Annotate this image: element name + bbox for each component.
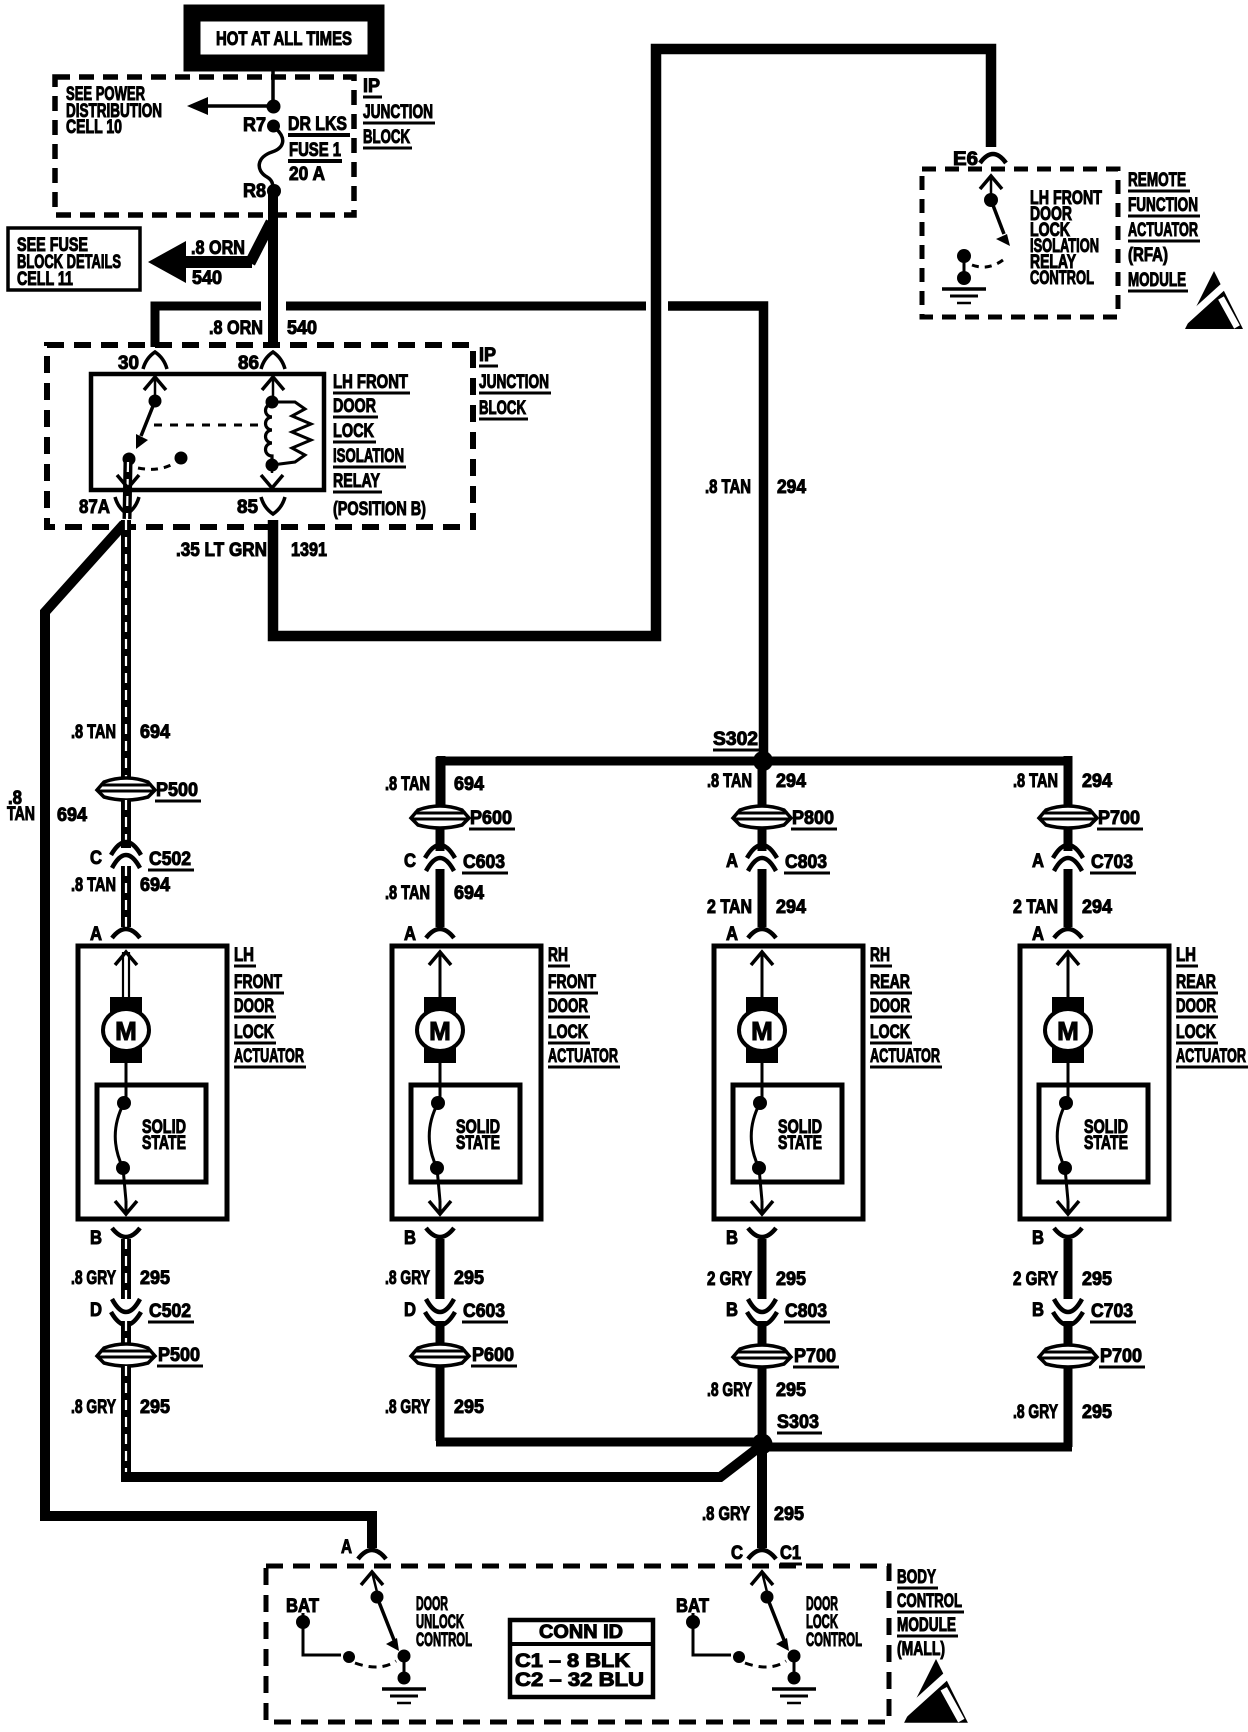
svg-text:B: B — [404, 1228, 416, 1249]
svg-text:295: 295 — [776, 1269, 806, 1290]
CONN ID table — [510, 1620, 653, 1697]
wire .8 GRY 295 LH front to S303 — [121, 1472, 722, 1482]
fuse DR LKS FUSE 1 20 A — [259, 126, 283, 190]
body control module dashed box — [266, 1566, 889, 1722]
svg-text:2 GRY: 2 GRY — [707, 1269, 752, 1290]
svg-text:S302: S302 — [713, 729, 758, 750]
svg-text:C603: C603 — [463, 852, 505, 873]
svg-text:C1: C1 — [780, 1543, 801, 1564]
connector C502 pin C — [111, 842, 141, 855]
wire (top) — [1064, 757, 1073, 806]
svg-text:M: M — [429, 1016, 451, 1046]
grommet P700 — [1039, 806, 1097, 828]
svg-text:P600: P600 — [470, 808, 512, 829]
svg-text:.8 GRY: .8 GRY — [702, 1504, 750, 1525]
wire (bottom) — [121, 1366, 131, 1472]
connector C603 pin D — [425, 1312, 455, 1325]
wire — [121, 1239, 131, 1299]
grommet P700 — [1039, 1345, 1097, 1367]
svg-text:694: 694 — [140, 722, 170, 743]
wire .8 GRY 295 S303 to BCM door lock control — [757, 1448, 767, 1548]
RH front door lock actuator box — [392, 946, 541, 1219]
grommet P600 — [411, 806, 469, 828]
svg-text:STATE: STATE — [1084, 1133, 1128, 1154]
svg-text:ACTUATOR: ACTUATOR — [870, 1046, 940, 1067]
svg-text:C803: C803 — [785, 1301, 827, 1322]
wire — [121, 1321, 131, 1344]
svg-text:85: 85 — [237, 497, 258, 518]
svg-text:A: A — [404, 924, 416, 945]
svg-text:C502: C502 — [149, 1301, 191, 1322]
wire from HOT AT ALL TIMES down — [271, 63, 275, 103]
svg-text:(RFA): (RFA) — [1128, 245, 1168, 266]
wire — [758, 828, 767, 851]
svg-text:.8 TAN: .8 TAN — [71, 722, 116, 743]
svg-text:20 A: 20 A — [289, 164, 325, 185]
motor M — [110, 997, 142, 1063]
svg-text:M: M — [751, 1016, 773, 1046]
svg-text:.8 GRY: .8 GRY — [385, 1397, 430, 1418]
LH front door lock actuator box — [78, 946, 227, 1219]
svg-text:.8 TAN: .8 TAN — [385, 883, 430, 904]
svg-text:BLOCK: BLOCK — [479, 398, 526, 419]
svg-text:REMOTE: REMOTE — [1128, 170, 1186, 191]
svg-text:A: A — [90, 924, 102, 945]
svg-text:M: M — [115, 1016, 137, 1046]
svg-text:A: A — [341, 1537, 352, 1558]
svg-text:294: 294 — [776, 771, 806, 792]
svg-text:2 GRY: 2 GRY — [1013, 1269, 1058, 1290]
motor M — [746, 997, 778, 1063]
wire — [436, 828, 445, 851]
wire — [439, 1063, 442, 1103]
svg-text:694: 694 — [454, 774, 484, 795]
svg-text:B: B — [90, 1228, 102, 1249]
wire — [758, 1321, 767, 1345]
wire — [758, 869, 767, 927]
grommet P800 — [733, 806, 791, 828]
svg-text:B: B — [726, 1300, 738, 1321]
svg-text:FRONT: FRONT — [548, 972, 596, 993]
svg-text:DOOR: DOOR — [870, 996, 910, 1017]
svg-text:LOCK: LOCK — [1176, 1022, 1216, 1043]
svg-text:LOCK: LOCK — [870, 1022, 910, 1043]
BCM switch: door unlock control — [361, 1572, 383, 1585]
svg-text:.35 LT GRN: .35 LT GRN — [176, 540, 267, 561]
svg-text:295: 295 — [140, 1268, 170, 1289]
wire — [759, 1168, 762, 1201]
svg-text:.8 TAN: .8 TAN — [1013, 771, 1058, 792]
arrow to power distribution — [206, 104, 273, 108]
ESD symbol (BCM) — [904, 1659, 968, 1723]
svg-text:.8 TAN: .8 TAN — [385, 774, 430, 795]
relay contact (position A, open) — [175, 452, 188, 465]
wire ORN 540 from R8 down to relay pin 86 — [268, 191, 278, 346]
svg-text:LOCK: LOCK — [548, 1022, 588, 1043]
svg-text:M: M — [1057, 1016, 1079, 1046]
svg-text:DR LKS: DR LKS — [288, 114, 347, 135]
svg-text:86: 86 — [238, 353, 259, 374]
svg-text:694: 694 — [454, 883, 484, 904]
svg-text:FUSE 1: FUSE 1 — [289, 140, 341, 161]
svg-text:B: B — [726, 1228, 738, 1249]
svg-text:(POSITION B): (POSITION B) — [333, 499, 426, 520]
wire (bottom) — [758, 1367, 767, 1436]
svg-text:REAR: REAR — [870, 972, 910, 993]
svg-text:.8 TAN: .8 TAN — [71, 875, 116, 896]
svg-text:A: A — [726, 924, 738, 945]
wire — [437, 1168, 440, 1201]
svg-text:JUNCTION: JUNCTION — [479, 372, 549, 393]
wire from relay pin 30 to S302 riser (feed line) — [155, 306, 261, 347]
svg-text:DOOR: DOOR — [234, 996, 274, 1017]
relay coil resistor — [272, 402, 311, 465]
relay switch arm (pin 30 to 87A) — [144, 377, 166, 390]
wire — [436, 1321, 445, 1344]
wire — [121, 800, 131, 848]
svg-text:TAN: TAN — [7, 804, 35, 825]
RFA ground contact — [957, 249, 971, 263]
svg-text:P500: P500 — [158, 1345, 200, 1366]
svg-text:P700: P700 — [1100, 1346, 1142, 1367]
BCM switch: door lock control — [751, 1572, 773, 1585]
wire — [1064, 1239, 1073, 1299]
svg-text:JUNCTION: JUNCTION — [363, 102, 433, 123]
wire — [1064, 1321, 1073, 1345]
svg-text:DOOR: DOOR — [548, 996, 588, 1017]
svg-text:A: A — [1032, 851, 1044, 872]
svg-text:HOT AT ALL TIMES: HOT AT ALL TIMES — [216, 29, 352, 50]
svg-text:RELAY: RELAY — [333, 471, 380, 492]
wire — [121, 866, 131, 927]
svg-text:.8 GRY: .8 GRY — [71, 1397, 116, 1418]
svg-text:C703: C703 — [1091, 852, 1133, 873]
svg-text:CELL 10: CELL 10 — [66, 117, 122, 138]
svg-text:P500: P500 — [156, 780, 198, 801]
svg-text:295: 295 — [454, 1397, 484, 1418]
svg-text:2 TAN: 2 TAN — [707, 897, 752, 918]
svg-text:P800: P800 — [792, 808, 834, 829]
svg-text:30: 30 — [118, 353, 139, 374]
svg-text:.8 GRY: .8 GRY — [71, 1268, 116, 1289]
svg-text:540: 540 — [287, 318, 317, 339]
svg-text:RH: RH — [870, 945, 890, 966]
relay coil — [262, 377, 284, 390]
svg-text:P700: P700 — [1098, 808, 1140, 829]
connector C803 pin A — [747, 845, 777, 858]
svg-text:C: C — [731, 1543, 743, 1564]
solid state box — [411, 1085, 520, 1182]
wire (top) — [758, 765, 767, 806]
svg-text:ACTUATOR: ACTUATOR — [234, 1046, 304, 1067]
svg-text:IP: IP — [363, 76, 380, 97]
svg-text:540: 540 — [192, 268, 222, 289]
grommet P500 — [97, 778, 155, 800]
svg-text:.8 GRY: .8 GRY — [385, 1268, 430, 1289]
svg-text:STATE: STATE — [142, 1133, 186, 1154]
svg-text:FUNCTION: FUNCTION — [1128, 195, 1198, 216]
wire .8 TAN 694 from 87A to BCM door unlock control — [45, 524, 372, 1548]
svg-text:C703: C703 — [1091, 1301, 1133, 1322]
connector C603 pin C — [425, 845, 455, 858]
svg-text:DOOR: DOOR — [333, 396, 376, 417]
svg-text:D: D — [90, 1300, 102, 1321]
RH rear door lock actuator box — [714, 946, 863, 1219]
ESD symbol (RFA) — [1185, 271, 1243, 329]
svg-text:C: C — [404, 851, 416, 872]
svg-text:FRONT: FRONT — [234, 972, 282, 993]
svg-text:295: 295 — [454, 1268, 484, 1289]
svg-text:C502: C502 — [149, 849, 191, 870]
big arrow to fuse block details, wire .8 ORN 540 — [250, 222, 271, 263]
svg-text:CONN ID: CONN ID — [539, 1622, 623, 1643]
wire — [125, 1063, 128, 1103]
svg-text:294: 294 — [776, 897, 806, 918]
svg-text:295: 295 — [140, 1397, 170, 1418]
svg-text:87A: 87A — [79, 497, 110, 518]
svg-text:C: C — [90, 848, 102, 869]
svg-text:R7: R7 — [243, 115, 266, 136]
wire — [758, 1239, 767, 1299]
svg-text:C603: C603 — [463, 1301, 505, 1322]
IP junction block (relay) dashed box — [47, 345, 473, 527]
svg-text:694: 694 — [140, 875, 170, 896]
svg-text:.8 ORN: .8 ORN — [191, 238, 245, 259]
svg-text:.8 GRY: .8 GRY — [707, 1380, 752, 1401]
svg-text:S303: S303 — [777, 1412, 819, 1433]
svg-text:294: 294 — [1082, 897, 1112, 918]
wire (bottom) — [436, 1366, 445, 1441]
svg-text:295: 295 — [1082, 1402, 1112, 1423]
svg-text:LH: LH — [234, 945, 254, 966]
svg-text:LH FRONT: LH FRONT — [333, 372, 408, 393]
svg-text:LH: LH — [1176, 945, 1196, 966]
svg-text:CELL 11: CELL 11 — [17, 269, 73, 290]
svg-text:.8 GRY: .8 GRY — [1013, 1402, 1058, 1423]
svg-text:D: D — [404, 1300, 416, 1321]
svg-text:LOCK: LOCK — [234, 1022, 274, 1043]
wire — [1064, 869, 1073, 927]
svg-text:C1 – 8 BLK: C1 – 8 BLK — [515, 1651, 630, 1672]
svg-text:294: 294 — [777, 477, 806, 498]
wire — [436, 869, 445, 927]
wire .8 GRY 295 LH rear to S303 — [758, 1443, 1072, 1452]
svg-text:ACTUATOR: ACTUATOR — [1128, 220, 1198, 241]
connector C703 pin A — [1053, 845, 1083, 858]
connector C703 pin B — [1053, 1312, 1083, 1325]
svg-text:DOOR: DOOR — [1176, 996, 1216, 1017]
RFA switch: LH front door lock isolation relay control — [980, 176, 1002, 189]
svg-text:295: 295 — [774, 1504, 804, 1525]
solid state box — [1039, 1085, 1148, 1182]
grommet P600 — [411, 1344, 469, 1366]
svg-text:LOCK: LOCK — [333, 421, 374, 442]
svg-text:295: 295 — [1082, 1269, 1112, 1290]
relay mechanical link (dashed) — [154, 424, 258, 427]
svg-text:ACTUATOR: ACTUATOR — [548, 1046, 618, 1067]
motor M — [424, 997, 456, 1063]
svg-text:(MALL): (MALL) — [897, 1639, 945, 1660]
solid state box — [733, 1085, 842, 1182]
svg-text:REAR: REAR — [1176, 972, 1216, 993]
relay inner box — [91, 374, 324, 490]
wire — [761, 1063, 764, 1103]
svg-text:ACTUATOR: ACTUATOR — [1176, 1046, 1246, 1067]
IP junction block (fuse) dashed box — [55, 77, 354, 215]
svg-text:A: A — [726, 851, 738, 872]
connector C803 pin B — [747, 1312, 777, 1325]
wire .8 GRY 295 RH front to S303 — [436, 1438, 762, 1447]
solid state box — [97, 1085, 206, 1182]
svg-text:.8 TAN: .8 TAN — [705, 477, 751, 498]
wire (top) — [121, 520, 131, 778]
svg-text:MODULE: MODULE — [1128, 270, 1186, 291]
svg-text:CONTROL: CONTROL — [897, 1591, 962, 1612]
svg-text:MODULE: MODULE — [897, 1615, 956, 1636]
motor M — [1052, 997, 1084, 1063]
svg-text:BODY: BODY — [897, 1567, 936, 1588]
wire — [436, 1239, 445, 1299]
svg-text:CONTROL: CONTROL — [416, 1630, 472, 1651]
junction dot above R7 — [267, 100, 281, 114]
svg-text:STATE: STATE — [778, 1133, 822, 1154]
grommet P500 — [97, 1344, 155, 1366]
grommet P700 — [733, 1345, 791, 1367]
note box SEE FUSE BLOCK DETAILS CELL 11 — [8, 228, 140, 290]
svg-text:C803: C803 — [785, 852, 827, 873]
svg-text:BLOCK: BLOCK — [363, 127, 410, 148]
wire — [1067, 1063, 1070, 1103]
power label box HOT AT ALL TIMES — [192, 13, 376, 63]
svg-text:IP: IP — [479, 345, 496, 366]
remote function actuator (RFA) module dashed box — [922, 169, 1118, 317]
svg-text:RH: RH — [548, 945, 568, 966]
svg-text:C2 – 32 BLU: C2 – 32 BLU — [515, 1670, 644, 1691]
wire (bottom) — [1064, 1367, 1073, 1447]
splice S302 — [441, 757, 1068, 766]
svg-text:B: B — [1032, 1228, 1044, 1249]
LH rear door lock actuator box — [1020, 946, 1169, 1219]
svg-text:ISOLATION: ISOLATION — [333, 446, 404, 467]
svg-text:P600: P600 — [472, 1345, 514, 1366]
wire — [123, 1168, 126, 1201]
svg-text:1391: 1391 — [291, 540, 327, 561]
svg-text:2 TAN: 2 TAN — [1013, 897, 1058, 918]
svg-text:STATE: STATE — [456, 1133, 500, 1154]
wire .35 LT GRN 1391 from pin 85 to RFA module E6 — [273, 49, 991, 636]
svg-text:CONTROL: CONTROL — [1030, 268, 1094, 289]
svg-text:.8 ORN: .8 ORN — [209, 318, 263, 339]
svg-text:295: 295 — [776, 1380, 806, 1401]
svg-text:P700: P700 — [794, 1346, 836, 1367]
wire — [1065, 1168, 1068, 1201]
svg-text:A: A — [1032, 924, 1044, 945]
connector C502 pin D — [111, 1312, 141, 1325]
svg-text:CONTROL: CONTROL — [806, 1630, 862, 1651]
svg-text:.8 TAN: .8 TAN — [707, 771, 752, 792]
svg-text:694: 694 — [57, 805, 87, 826]
svg-text:R8: R8 — [243, 181, 266, 202]
wire — [1064, 828, 1073, 851]
wire (top) — [436, 757, 445, 806]
svg-text:B: B — [1032, 1300, 1044, 1321]
svg-text:294: 294 — [1082, 771, 1112, 792]
